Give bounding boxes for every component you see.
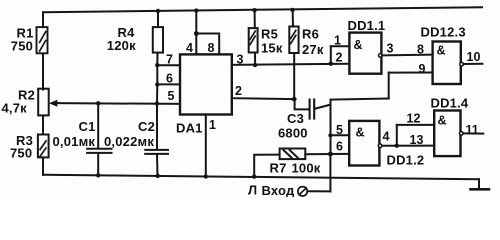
svg-text:&: & [438,114,447,128]
svg-text:13: 13 [410,133,424,147]
svg-text:C2: C2 [138,119,155,134]
svg-text:11: 11 [466,123,479,137]
svg-text:5: 5 [336,123,343,137]
svg-text:&: & [356,126,365,140]
svg-text:DD1.4: DD1.4 [431,96,469,111]
svg-text:&: & [354,38,363,52]
svg-text:1: 1 [209,118,216,132]
svg-text:750: 750 [11,39,33,54]
svg-text:R7: R7 [270,161,287,176]
svg-text:10: 10 [467,50,481,64]
svg-text:0,022мк: 0,022мк [104,134,154,149]
svg-text:Вход: Вход [262,183,295,197]
svg-text:4,7к: 4,7к [2,101,28,116]
svg-text:6800: 6800 [278,126,308,141]
svg-text:4: 4 [383,130,390,144]
svg-text:2: 2 [235,84,242,98]
svg-text:2: 2 [336,51,343,65]
svg-text:0,01мк: 0,01мк [53,134,96,149]
svg-text:5: 5 [168,89,175,103]
svg-text:3: 3 [237,53,244,67]
svg-text:8: 8 [417,43,424,57]
svg-text:R6: R6 [302,27,319,42]
svg-text:3: 3 [387,42,394,56]
svg-text:6: 6 [336,140,343,154]
svg-text:C3: C3 [287,111,304,126]
svg-text:6: 6 [166,72,173,86]
svg-text:12: 12 [407,112,421,126]
svg-text:R5: R5 [261,27,278,42]
svg-text:DA1: DA1 [176,121,203,136]
svg-text:750: 750 [10,146,32,161]
svg-text:DD1.2: DD1.2 [387,153,425,168]
svg-text:DD12.3: DD12.3 [421,25,466,40]
svg-text:Л: Л [248,183,257,198]
svg-text:4: 4 [186,41,193,55]
svg-text:27к: 27к [302,42,324,57]
svg-text:1: 1 [334,34,341,48]
svg-text:DD1.1: DD1.1 [348,18,386,33]
svg-text:15к: 15к [261,41,283,56]
svg-text:9: 9 [419,62,426,76]
svg-text:100к: 100к [292,161,321,176]
svg-text:120к: 120к [107,38,136,53]
svg-text:7: 7 [166,53,173,67]
svg-text:8: 8 [208,41,215,55]
svg-text:&: & [437,44,446,58]
svg-text:C1: C1 [79,119,96,134]
